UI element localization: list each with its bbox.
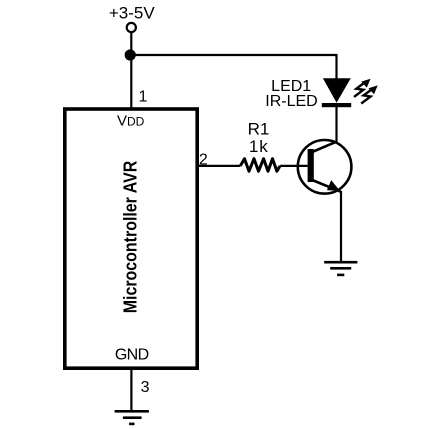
svg-text:3: 3 <box>141 379 150 396</box>
resistor R1 <box>240 159 280 172</box>
transistor Q1 base bar <box>308 149 314 182</box>
ground (microcontroller GND) <box>115 410 149 425</box>
ground (transistor emitter) <box>324 261 357 276</box>
LED1 cathode bar <box>322 103 351 107</box>
svg-text:R1: R1 <box>248 119 270 138</box>
junction dot <box>125 49 136 60</box>
transistor Q1 emitter line <box>311 180 341 192</box>
transistor Q1 collector line <box>311 141 337 152</box>
wire pin 3 to ground <box>130 369 132 410</box>
wire resistor to base <box>280 165 308 167</box>
resistor R1 label <box>248 119 270 138</box>
resistor value 1k <box>249 137 269 156</box>
microcontroller name Microcontroller AVR <box>121 161 141 314</box>
transistor Q1 emitter arrowhead <box>327 180 340 191</box>
svg-text:+3-5V: +3-5V <box>109 3 155 22</box>
wire LED cathode to collector <box>335 107 337 143</box>
wire pin 2 to resistor <box>199 165 240 167</box>
pin 3 label <box>141 379 150 396</box>
node +3-5V label <box>109 3 155 22</box>
LED emission arrow 1 <box>354 79 371 97</box>
pin VDD label <box>117 112 145 129</box>
wire emitter to ground <box>340 191 342 261</box>
microcontroller U1 box <box>65 109 197 368</box>
svg-text:GND: GND <box>115 347 149 364</box>
LED1 value IR-LED <box>265 93 317 110</box>
svg-text:1: 1 <box>139 88 148 105</box>
svg-text:1k: 1k <box>249 137 269 156</box>
wire terminal to pin 1 <box>130 32 132 107</box>
svg-text:IR-LED: IR-LED <box>265 93 317 110</box>
transistor Q1 body <box>298 140 352 194</box>
pin 2 label <box>199 151 208 168</box>
svg-text:VDD: VDD <box>117 112 145 129</box>
LED1 symbol anode triangle <box>323 78 351 103</box>
svg-text:Microcontroller AVR: Microcontroller AVR <box>121 161 141 314</box>
power terminal +3-5V <box>127 23 136 32</box>
pin 1 label <box>139 88 148 105</box>
LED1 label <box>271 78 311 95</box>
wire junction to LED anode <box>130 55 336 79</box>
LED emission arrow 2 <box>361 85 378 103</box>
pin GND label <box>115 347 149 364</box>
